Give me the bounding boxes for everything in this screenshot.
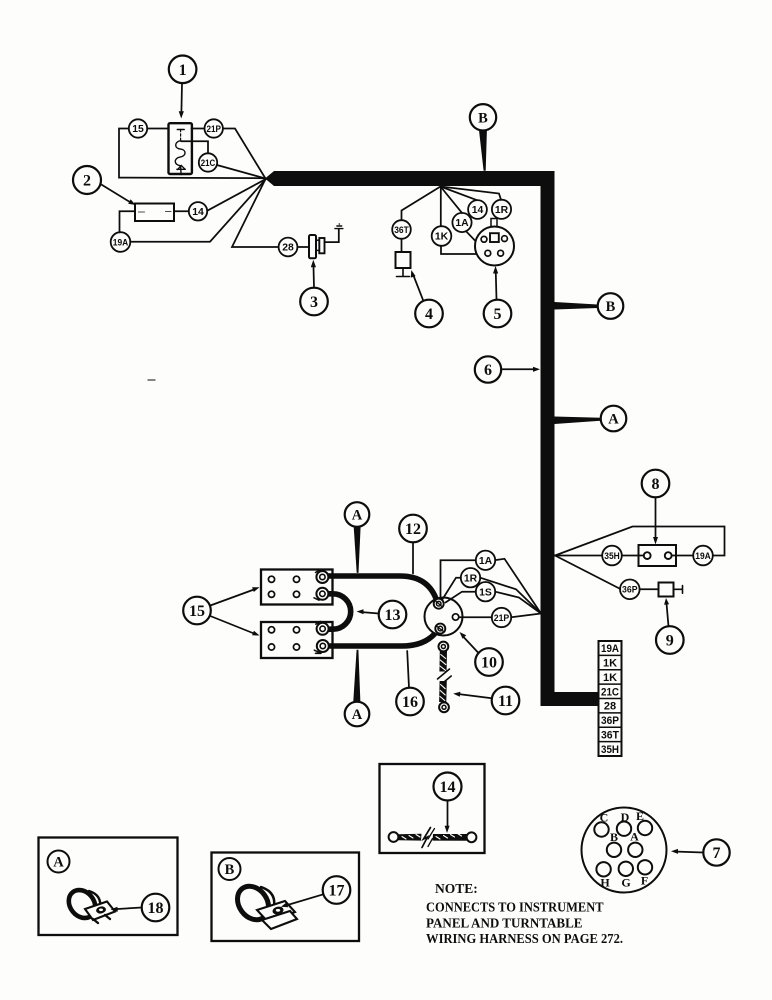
svg-text:2: 2 (83, 173, 91, 190)
tag 35H (602, 546, 622, 566)
svg-text:21C: 21C (601, 686, 619, 698)
svg-text:16: 16 (402, 694, 418, 711)
balloon A right (601, 406, 627, 432)
svg-text:B: B (610, 830, 618, 844)
resistor block (item 2) (135, 204, 174, 222)
wire harness fan to tag 36T (402, 187, 441, 221)
svg-text:21C: 21C (201, 157, 216, 168)
svg-text:E: E (636, 809, 644, 823)
wire tag 36T to sender unit (401, 239, 403, 252)
tag 21P (socket) (492, 608, 511, 627)
svg-text:B: B (606, 299, 616, 315)
tag 19A right (693, 546, 713, 566)
wire loop from harness fan over to tag 19A (555, 527, 725, 556)
balloon 1 (169, 56, 197, 119)
balloon 18 (111, 894, 170, 922)
balloon 14 (434, 773, 462, 834)
tag 21P (205, 119, 223, 137)
wire item2 left down to tag 19A (120, 211, 136, 232)
svg-text:1S: 1S (479, 587, 492, 598)
detail box 14 (380, 764, 485, 853)
wire tag 21C to harness fan (217, 165, 266, 179)
svg-text:WIRING HARNESS ON PAGE 272.: WIRING HARNESS ON PAGE 272. (426, 931, 623, 946)
balloon 10 (460, 632, 503, 676)
wire taper balloon A bottom to terminal (353, 650, 360, 703)
wire harness fan to tag 1A (441, 187, 463, 213)
flasher unit (item 1) (169, 123, 192, 175)
stray tick mark (148, 379, 155, 381)
wire flasher to tag 21C (181, 141, 208, 153)
balloon 4 (411, 270, 443, 327)
svg-text:B: B (225, 862, 235, 878)
svg-text:19A: 19A (601, 643, 619, 655)
junction block (item 8) (639, 545, 677, 566)
wire item2 to tag 14 (174, 210, 189, 212)
svg-text:NOTE:: NOTE: (435, 881, 478, 896)
wire main harness bus (265, 171, 599, 706)
wire tag 21P to harness fan (223, 129, 266, 179)
wire tag 1A to harness fan (495, 559, 541, 614)
svg-text:1K: 1K (435, 232, 449, 243)
svg-text:A: A (352, 707, 363, 723)
svg-text:5: 5 (494, 306, 502, 323)
balloon 12 (399, 515, 427, 574)
balloon 16 (396, 651, 424, 715)
svg-text:3: 3 (310, 294, 318, 311)
screw terminal lower-1 (316, 621, 329, 634)
tag 28 (279, 238, 298, 257)
wire 15 tag to flasher (147, 128, 168, 130)
svg-text:28: 28 (282, 243, 294, 254)
wire tag 1A left to socket terminal (441, 560, 476, 598)
wire harness fan to tag 36P (555, 556, 620, 590)
balloon B right (598, 293, 624, 319)
svg-text:21P: 21P (206, 123, 221, 134)
svg-text:A: A (630, 829, 639, 843)
svg-text:10: 10 (481, 655, 497, 672)
wire tag 21P to harness fan (511, 614, 541, 618)
svg-text:28: 28 (604, 701, 616, 713)
clamp (item 17) (231, 880, 297, 929)
svg-text:6: 6 (484, 362, 492, 379)
svg-text:1K: 1K (603, 658, 617, 670)
svg-text:A: A (608, 412, 619, 428)
detail box A (39, 838, 178, 936)
wire 16 thick lead lower terminal to socket (328, 630, 438, 647)
svg-text:CONNECTS TO INSTRUMENT: CONNECTS TO INSTRUMENT (426, 900, 604, 915)
wire flasher right to tag 21P (192, 128, 205, 130)
balloon 15 (183, 587, 259, 635)
svg-text:17: 17 (329, 883, 345, 900)
svg-text:11: 11 (498, 693, 513, 710)
sender unit (item 4) (396, 252, 411, 277)
wire tag 28 to capacitor (297, 246, 309, 248)
wire tag 19A to harness fan (130, 180, 265, 242)
screw terminal upper-1 (316, 570, 329, 584)
capacitor assembly (item 3) (309, 223, 343, 258)
wire 13 U jumper (328, 594, 351, 629)
wire taper balloon B to harness (479, 130, 487, 171)
svg-text:35H: 35H (604, 550, 620, 561)
svg-text:B: B (478, 111, 488, 127)
svg-text:13: 13 (385, 607, 401, 624)
balloon 2 (73, 166, 136, 205)
wire socket hole to tag 21P (459, 616, 492, 618)
tag 36T (392, 220, 411, 239)
tag 1A (socket) (476, 551, 495, 570)
svg-text:15: 15 (189, 603, 205, 620)
svg-text:36P: 36P (601, 715, 619, 727)
balloon 7 (671, 839, 730, 865)
tick mark under lower terminal (316, 652, 322, 654)
wire from tag 15 left, down and to harness fan (119, 129, 266, 179)
svg-text:1: 1 (179, 62, 187, 79)
turn signal socket (item 10) (425, 598, 463, 636)
tag 36P (620, 580, 640, 600)
svg-text:1R: 1R (464, 573, 478, 584)
svg-text:1R: 1R (495, 205, 509, 216)
tag 1A (452, 213, 471, 232)
jumper cable (item 14) (389, 828, 477, 848)
svg-text:D: D (621, 810, 630, 824)
note text (426, 881, 623, 946)
wire harness fan to tag 28 (232, 179, 279, 247)
clamp (item 18) (63, 885, 115, 923)
svg-text:18: 18 (148, 900, 164, 917)
switch (item 9) (659, 583, 683, 597)
wire tag 1S to harness fan (495, 592, 541, 614)
svg-text:35H: 35H (601, 744, 619, 756)
svg-text:A: A (53, 854, 64, 870)
wire tag 35H to junction block (622, 555, 644, 557)
wire tag 36P to switch (640, 588, 659, 590)
svg-text:36T: 36T (394, 224, 409, 235)
balloon A top (clamp position) (345, 502, 370, 527)
balloon A bottom (clamp position) (345, 702, 370, 727)
detail box B (212, 853, 360, 942)
svg-text:14: 14 (192, 207, 204, 218)
wire tag 1A to socket pin (466, 231, 486, 252)
balloon B top (470, 104, 496, 130)
wire harness fan to tag 14 (441, 187, 478, 201)
wire tag 14 to harness fan (207, 179, 265, 211)
svg-text:4: 4 (425, 306, 433, 323)
balloon 3 (300, 260, 328, 316)
svg-text:1A: 1A (455, 218, 469, 229)
wire tag 1R left to socket terminal (442, 578, 461, 600)
balloon 11 (453, 687, 519, 715)
wire harness fan right to tag 35H (555, 555, 602, 557)
balloon 8 (642, 470, 670, 545)
balloon 9 (656, 598, 684, 654)
wire harness fan to tag 1R (441, 187, 502, 200)
svg-text:15: 15 (132, 124, 144, 135)
svg-text:PANEL AND TURNTABLE: PANEL AND TURNTABLE (426, 916, 583, 931)
balloon B (box B) (219, 858, 241, 880)
wire stem tag 1R to socket terminal (491, 219, 497, 234)
svg-text:19A: 19A (695, 550, 711, 561)
svg-text:14: 14 (440, 779, 456, 796)
svg-text:F: F (641, 874, 648, 888)
svg-text:1A: 1A (479, 556, 493, 567)
wire harness fan to tag 1K (440, 187, 442, 227)
balloon 13 (357, 601, 407, 629)
tag 14 (189, 202, 207, 220)
tag 1R (socket) (461, 568, 480, 587)
tag 14 (lamp) (468, 200, 487, 219)
svg-text:19A: 19A (113, 236, 129, 247)
svg-text:7: 7 (713, 845, 721, 862)
terminal block upper (item 15) (261, 570, 333, 605)
svg-text:8: 8 (652, 476, 660, 493)
wire stub harness to balloon A right (555, 417, 601, 425)
screw terminal upper-2 (314, 588, 328, 600)
wire stub harness to balloon B right (555, 302, 598, 310)
tag 1S (socket) (476, 582, 495, 601)
wire taper balloon A top to terminal (354, 527, 361, 573)
balloon A (box A) (48, 851, 70, 873)
wire junction block to tag 19A (672, 555, 693, 557)
svg-text:H: H (600, 875, 610, 889)
tag 21C (199, 153, 217, 171)
svg-text:12: 12 (405, 521, 421, 538)
wire tag 1S left to socket terminal (446, 592, 476, 603)
terminal block lower (item 15) (261, 622, 333, 658)
ground strap (item 11) (438, 642, 452, 713)
tag 1K (432, 226, 452, 246)
wire code table (599, 641, 622, 756)
balloon 6 (475, 356, 540, 382)
tag 15 (129, 119, 147, 137)
screw terminal lower-2 (314, 640, 329, 652)
wire tag 1R to harness fan (480, 578, 541, 614)
svg-text:9: 9 (666, 633, 674, 650)
balloon 5 (484, 266, 512, 327)
svg-text:36P: 36P (622, 584, 638, 595)
svg-text:G: G (621, 876, 630, 890)
svg-text:14: 14 (472, 205, 484, 216)
tag 19A (111, 232, 131, 252)
svg-text:21P: 21P (494, 612, 510, 623)
svg-text:A: A (352, 508, 363, 524)
wire tag 1K to socket pin (441, 246, 484, 254)
tag 1R (492, 200, 511, 219)
connector plug (item 7) (582, 808, 667, 893)
svg-text:1K: 1K (603, 672, 617, 684)
svg-text:C: C (600, 811, 609, 825)
balloon 17 (281, 876, 350, 907)
wire 12 thick lead upper terminal to socket (328, 576, 437, 602)
svg-text:36T: 36T (601, 730, 619, 742)
lamp socket (item 5) (475, 227, 514, 266)
